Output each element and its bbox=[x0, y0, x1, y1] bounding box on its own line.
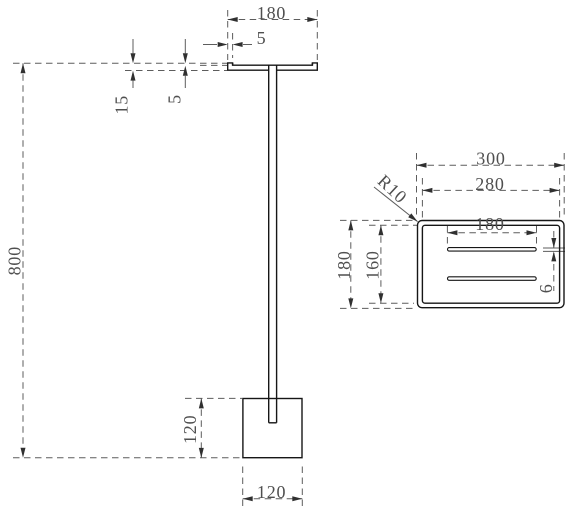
svg-text:6: 6 bbox=[536, 283, 556, 293]
svg-text:300: 300 bbox=[476, 149, 505, 169]
svg-text:280: 280 bbox=[475, 174, 504, 194]
svg-text:15: 15 bbox=[112, 95, 132, 115]
svg-text:120: 120 bbox=[257, 482, 286, 502]
svg-text:120: 120 bbox=[180, 415, 200, 444]
svg-text:180: 180 bbox=[334, 250, 354, 279]
svg-text:180: 180 bbox=[475, 214, 504, 234]
svg-text:5: 5 bbox=[257, 28, 267, 48]
svg-text:800: 800 bbox=[5, 246, 25, 275]
svg-text:5: 5 bbox=[165, 94, 185, 104]
svg-text:180: 180 bbox=[257, 3, 286, 23]
svg-text:160: 160 bbox=[363, 250, 383, 279]
